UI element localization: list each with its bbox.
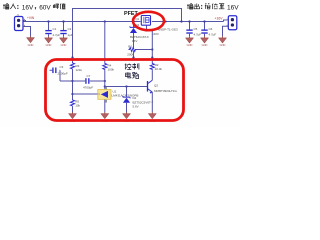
svg-text:4700pF: 4700pF: [83, 86, 93, 90]
svg-text:Q1: Q1: [136, 17, 140, 21]
wire: J2 pin2 to ground: [223, 26, 229, 36]
svg-text:16V: 16V: [227, 5, 239, 12]
wire: C2 stub: [63, 22, 65, 37]
wire: top sense rail: [73, 9, 182, 63]
wire: U1 to gnd: [104, 100, 106, 112]
wire: R4 column: [104, 22, 106, 90]
wire: gate stub: [147, 26, 153, 63]
capacitor C7: [85, 78, 89, 84]
svg-text:16V: 16V: [22, 5, 34, 12]
ground C6: [201, 36, 209, 47]
transistor Q2 NPN: [148, 80, 178, 93]
node C1: [47, 20, 49, 22]
svg-text:4.7µF: 4.7µF: [53, 33, 61, 37]
svg-text:16V: 16V: [132, 39, 137, 43]
ground J1: [27, 36, 35, 47]
wire: output rail: [152, 20, 229, 22]
node drain dot: [164, 20, 166, 22]
wire: C5 stub: [189, 22, 191, 37]
diode D1 zener: [130, 26, 137, 33]
node D2 tap: [125, 85, 127, 87]
svg-text:5.6V: 5.6V: [133, 105, 139, 109]
wire: D1 column: [133, 22, 135, 48]
svg-text:100k: 100k: [108, 68, 115, 72]
ground C5: [186, 36, 194, 47]
wire: R1 bottom stub: [133, 51, 135, 58]
label 控制电路: [125, 63, 139, 78]
node gate-R1: [151, 48, 153, 50]
wire: C6 stub: [204, 22, 206, 37]
resistor R5: [70, 99, 80, 108]
svg-text:-60V: -60V: [153, 32, 159, 36]
title: 输入：16V、60V 峰值: [3, 3, 65, 11]
node C7 right end: [104, 80, 106, 82]
connector J1: [15, 17, 24, 31]
node C6: [203, 20, 205, 22]
op-amp U1 shunt regulator: [98, 87, 139, 103]
node R1 pin end: [132, 56, 134, 58]
wire: input rail: [23, 21, 141, 22]
svg-text:C3: C3: [60, 65, 64, 69]
ground C2: [60, 36, 68, 47]
wire: C1 stub: [48, 22, 50, 37]
ground C1: [45, 36, 53, 47]
capacitor C2: [60, 30, 66, 34]
wire: R2 to Q2 collector: [151, 71, 153, 81]
svg-text:C6: C6: [209, 27, 213, 31]
capacitor C1: [45, 30, 51, 34]
ground D2: [123, 112, 131, 123]
node C5: [188, 20, 190, 22]
node C2: [62, 20, 64, 22]
ground U1: [101, 112, 109, 123]
svg-text:C7: C7: [87, 74, 91, 78]
svg-text:+16V: +16V: [215, 17, 224, 21]
svg-text:C5: C5: [194, 27, 198, 31]
wire: C3 left stub: [50, 70, 73, 81]
svg-text:60V: 60V: [39, 5, 51, 12]
node divider tap: [104, 85, 106, 87]
svg-text:MMBT3904LT1G: MMBT3904LT1G: [154, 89, 177, 93]
capacitor C5: [186, 29, 192, 33]
svg-text:121k: 121k: [76, 68, 83, 72]
wire: R3 to R5 column: [72, 70, 74, 99]
resistor R2: [150, 63, 162, 72]
connector J2: [228, 16, 237, 30]
wire: base drive wire: [105, 86, 148, 88]
diode D2 zener: [123, 96, 130, 103]
annotation box around control circuit: [46, 60, 184, 121]
svg-text:R1: R1: [128, 44, 132, 48]
wire: R5 to gnd: [72, 107, 74, 112]
capacitor C3: [52, 68, 56, 74]
wire: Q2 emitter to gnd: [151, 92, 153, 112]
ground J2: [219, 36, 227, 47]
resistor R4: [103, 63, 115, 72]
svg-text:+VIN: +VIN: [27, 16, 35, 20]
node top rail junction: [180, 20, 182, 22]
svg-text:4.7µF: 4.7µF: [209, 32, 217, 36]
transistor Q1 PFET: [136, 16, 151, 26]
resistor R3: [70, 62, 82, 72]
svg-text:20.0k: 20.0k: [155, 67, 163, 71]
node gate: [145, 29, 147, 31]
svg-text:C2: C2: [68, 27, 72, 31]
node R3 pin end: [71, 56, 73, 58]
ground Q2: [148, 112, 156, 123]
node D1 rail tap: [132, 20, 134, 22]
capacitor C6: [201, 29, 207, 33]
svg-text:Q2: Q2: [154, 84, 158, 88]
svg-text:C1: C1: [53, 27, 57, 31]
node ref tap: [71, 93, 73, 95]
svg-text:4.7µF: 4.7µF: [194, 32, 202, 36]
wire: ref wire to U1: [73, 93, 101, 95]
svg-text:2200pF: 2200pF: [58, 71, 68, 75]
svg-text:10k: 10k: [75, 104, 80, 108]
annotation ellipse around Q1: [133, 12, 164, 30]
node R2 pin end: [151, 56, 153, 58]
node R4 rail tap: [104, 20, 106, 22]
svg-text:1µF: 1µF: [68, 33, 73, 37]
title: 输出：箝位至 16V: [187, 3, 239, 11]
wire: J1 pin2 to ground: [23, 27, 31, 37]
wire: D2 column: [126, 87, 128, 113]
wire: C7 branch: [73, 80, 105, 82]
node C3-C7 tap: [71, 80, 73, 82]
ground R5: [69, 112, 77, 123]
resistor R1: [127, 44, 136, 56]
wire: gate to R1: [136, 49, 152, 51]
